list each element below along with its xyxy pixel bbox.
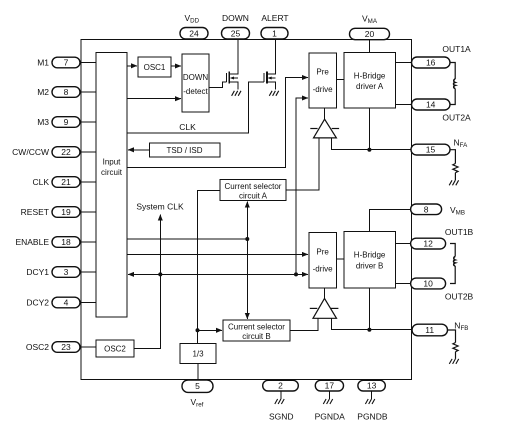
svg-text:NFA: NFA: [454, 138, 469, 150]
svg-text:System CLK: System CLK: [136, 202, 184, 212]
wire pin DCY1 to input circuit: [80, 271, 96, 273]
svg-text:8: 8: [424, 204, 429, 214]
node: pre-drive A lower branch junction: [294, 272, 298, 276]
svg-text:22: 22: [61, 147, 71, 157]
pin 14 OUT2A: [412, 99, 451, 110]
svg-text:ALERT: ALERT: [261, 13, 288, 23]
wire Pre-drive A lower input (arrow): [296, 98, 308, 274]
wire 1/3 to pin Vref: [197, 364, 199, 381]
wire pin CLK to input circuit: [80, 181, 96, 183]
wire shared enable line to Pre-drive B lower (arrow right): [160, 273, 308, 275]
svg-text:11: 11: [425, 325, 434, 335]
pin 7 M1: [52, 57, 80, 68]
svg-text:CLK: CLK: [32, 177, 49, 187]
wire Pre-drive A to H-Bridge A: [336, 79, 344, 81]
svg-text:PGNDB: PGNDB: [357, 412, 388, 422]
wire pin M2 to input circuit: [80, 91, 96, 93]
wire input to DOWN detect (arrow): [127, 98, 181, 100]
svg-text:CW/CCW: CW/CCW: [12, 147, 49, 157]
svg-text:-detect: -detect: [183, 87, 208, 96]
svg-text:DOWN: DOWN: [183, 73, 209, 82]
svg-text:OSC2: OSC2: [26, 342, 49, 352]
svg-text:3: 3: [64, 267, 69, 277]
node: NFA / H-bridge A junction: [367, 148, 371, 152]
svg-text:OSC2: OSC2: [104, 345, 126, 354]
wire input to Pre-drive B upper (arrow): [127, 253, 308, 255]
wire System CLK arrow up: [159, 215, 161, 275]
svg-text:15: 15: [426, 145, 436, 155]
svg-text:RESET: RESET: [21, 207, 49, 217]
svg-text:H-Bridge: H-Bridge: [354, 251, 386, 260]
IC outer boundary: [81, 40, 411, 380]
pin 4 DCY2: [52, 297, 80, 308]
svg-text:24: 24: [189, 28, 199, 38]
svg-text:5: 5: [195, 381, 200, 391]
wire Vref branch to selector B (arrow): [198, 329, 223, 331]
wire input to OSC1 (arrow): [127, 65, 137, 67]
svg-text:TSD / ISD: TSD / ISD: [166, 146, 202, 155]
pin 19 RESET: [52, 207, 80, 218]
block: Current selector circuit A: [220, 180, 286, 201]
svg-text:20: 20: [365, 29, 375, 39]
block: H-Bridge driver B: [344, 232, 396, 288]
svg-text:16: 16: [426, 58, 436, 68]
pin 12 OUT1B: [411, 238, 446, 249]
wire H-Bridge B to pin OUT1B: [395, 243, 412, 245]
node: NFB / H-bridge B junction: [367, 328, 371, 332]
svg-text:9: 9: [64, 117, 69, 127]
pin 18 ENABLE: [52, 237, 80, 248]
block: 1/3 divider: [180, 344, 216, 364]
node: system clk / enable junction: [158, 272, 162, 276]
svg-text:25: 25: [231, 28, 241, 38]
wire selector B to comparator B input: [290, 318, 318, 330]
load coil B between OUT1B/OUT2B: [450, 244, 455, 284]
svg-text:OUT1B: OUT1B: [445, 227, 474, 237]
block: DOWN detect: [182, 54, 209, 112]
block: OSC1: [138, 57, 171, 77]
svg-text:Input: Input: [103, 158, 122, 167]
pin 10 OUT2B: [411, 278, 446, 289]
svg-text:PGNDA: PGNDA: [315, 412, 346, 422]
svg-text:14: 14: [426, 100, 436, 110]
load coil A between OUT1A/OUT2A: [450, 63, 455, 105]
svg-text:-drive: -drive: [313, 85, 334, 94]
pin 11 NFB: [412, 324, 448, 336]
wire net CLK from input to Q2 gate: [127, 82, 264, 133]
svg-text:CLK: CLK: [179, 122, 196, 132]
pin 9 M3: [52, 117, 80, 128]
svg-text:19: 19: [61, 207, 71, 217]
wire OSC2 block to System CLK vertical: [134, 274, 160, 348]
svg-text:Pre: Pre: [316, 68, 329, 77]
comparator B (current limit): [310, 298, 339, 318]
pin 24 VDD: [180, 28, 208, 40]
svg-text:1: 1: [272, 28, 277, 38]
comparator A (current limit): [310, 119, 339, 138]
svg-text:SGND: SGND: [269, 412, 294, 422]
svg-text:OUT2B: OUT2B: [445, 292, 474, 302]
wire selector A to comparator A input: [286, 138, 319, 190]
svg-text:18: 18: [61, 237, 71, 247]
wire net NFA pin15 to comparator A: [332, 138, 411, 150]
wire comparator B output to Pre-drive B: [324, 288, 326, 298]
svg-text:circuit A: circuit A: [239, 192, 268, 201]
wire comparator A output to Pre-drive A: [324, 108, 326, 119]
sense resistor RNF A and ground: [450, 150, 458, 181]
svg-text:10: 10: [423, 279, 433, 289]
wire pin M1 to input circuit: [80, 62, 96, 64]
transistor Q1 (DOWN open-drain): [226, 40, 238, 90]
svg-text:M2: M2: [37, 87, 49, 97]
block: Input circuit U1: [96, 53, 127, 318]
bottom pin ground stubs: [281, 391, 372, 399]
svg-text:driver A: driver A: [356, 82, 384, 91]
wire pin CW/CCW to input circuit: [80, 151, 96, 153]
pin 1 ALERT: [261, 28, 288, 40]
wire pin ENABLE to input circuit: [80, 241, 96, 243]
wire OSC1 to DOWN detect (arrow): [171, 65, 181, 67]
ground at Q2 source: [269, 91, 278, 96]
wire input to Pre-drive A upper (arrow): [127, 78, 308, 168]
svg-text:driver B: driver B: [356, 262, 384, 271]
svg-text:21: 21: [61, 177, 71, 187]
pin 25 DOWN: [222, 28, 250, 40]
ground at Q1 source: [232, 91, 241, 96]
wire pin VMB to H-Bridge B: [369, 210, 411, 232]
block: Pre-drive B: [309, 233, 336, 288]
pin 13 PGNDB: [358, 380, 385, 391]
svg-text:VMA: VMA: [362, 14, 378, 26]
svg-text:17: 17: [325, 381, 335, 391]
junction dots: [158, 148, 371, 333]
pin 22 CW/CCW: [52, 147, 80, 158]
sense resistor RNF B and ground: [448, 330, 459, 359]
svg-text:7: 7: [64, 58, 69, 68]
svg-text:M3: M3: [37, 117, 49, 127]
pin 3 DCY1: [52, 267, 80, 278]
pin 15 NFA: [411, 144, 450, 155]
svg-text:circuit B: circuit B: [242, 332, 270, 341]
wire pin M3 to input circuit: [80, 121, 96, 123]
ground at pin PGNDB: [371, 391, 373, 399]
pin 2 SGND: [263, 380, 299, 391]
svg-text:DCY1: DCY1: [26, 267, 49, 277]
svg-text:VDD: VDD: [185, 13, 200, 25]
svg-text:OSC1: OSC1: [144, 63, 166, 72]
wire TSD/ISD to input circuit (arrow left): [128, 149, 149, 151]
pin 23 OSC2: [52, 342, 80, 353]
pin ovals: [52, 28, 450, 393]
svg-text:Current selector: Current selector: [225, 182, 282, 191]
pin 16 OUT1A: [412, 57, 451, 68]
svg-text:12: 12: [423, 239, 433, 249]
svg-text:1/3: 1/3: [192, 350, 204, 359]
wire H-Bridge B to NFB net: [368, 288, 370, 330]
pin 21 CLK: [52, 177, 80, 188]
svg-text:DOWN: DOWN: [222, 13, 249, 23]
wire selector shared vertical (arrow both ends): [246, 202, 248, 239]
pin 5 Vref: [182, 380, 213, 392]
wire pin RESET to input circuit: [80, 211, 96, 213]
ground at pin PGNDA: [329, 391, 331, 399]
svg-text:Pre: Pre: [316, 248, 329, 257]
pin 17 PGNDA: [315, 380, 343, 391]
svg-text:VMB: VMB: [450, 205, 465, 217]
pin 20 VMA: [350, 28, 390, 39]
node: selector feed junction: [245, 237, 249, 241]
wire H-Bridge B to pin OUT2B: [395, 283, 412, 285]
block texts: [101, 63, 386, 359]
svg-text:H-Bridge: H-Bridge: [354, 72, 386, 81]
block: OSC2: [96, 340, 134, 357]
wire pin OSC2 to OSC2 block: [80, 346, 96, 348]
pin 8 M2: [52, 87, 80, 98]
transistor Q2 (ALERT open-drain): [264, 40, 276, 90]
block: Current selector circuit B: [223, 320, 290, 341]
wire H-Bridge A to pin OUT1A: [395, 62, 412, 64]
svg-text:4: 4: [64, 298, 69, 308]
wire H-Bridge A to NFA net: [368, 108, 370, 150]
wire Pre-drive B to H-Bridge B: [336, 258, 344, 260]
svg-text:2: 2: [278, 381, 283, 391]
wire pin DCY2 to input circuit: [80, 302, 96, 304]
wire input to selector vertical: [127, 238, 247, 240]
block: H-Bridge driver A: [344, 53, 396, 108]
svg-text:-drive: -drive: [313, 265, 334, 274]
svg-text:NFB: NFB: [454, 321, 468, 333]
block: Pre-drive A: [309, 53, 336, 108]
svg-text:Vref: Vref: [191, 397, 204, 409]
wire DOWN detect to Q1 gate: [209, 82, 226, 88]
ground at pin SGND: [280, 391, 282, 399]
svg-text:23: 23: [61, 342, 71, 352]
svg-text:M1: M1: [37, 58, 49, 68]
svg-text:Current selector: Current selector: [228, 323, 285, 332]
svg-text:OUT1A: OUT1A: [442, 44, 471, 54]
node: Vref branch junction: [196, 328, 200, 332]
svg-text:circuit: circuit: [101, 168, 123, 177]
pin 8 VMB: [411, 204, 442, 215]
svg-text:13: 13: [367, 381, 377, 391]
svg-text:ENABLE: ENABLE: [15, 237, 49, 247]
wire Vref net: 1/3 up to selectors: [198, 191, 221, 344]
wire net NFB pin11 to comparator B: [332, 318, 412, 329]
svg-text:OUT2A: OUT2A: [442, 113, 471, 123]
svg-text:8: 8: [64, 87, 69, 97]
wire pin VMA to H-Bridge A: [369, 40, 371, 53]
block: TSD/ISD: [149, 143, 220, 157]
wire shared enable line into input circuit (arrow left): [128, 273, 296, 275]
svg-text:DCY2: DCY2: [26, 298, 49, 308]
wire H-Bridge A to pin OUT2A: [395, 104, 412, 106]
